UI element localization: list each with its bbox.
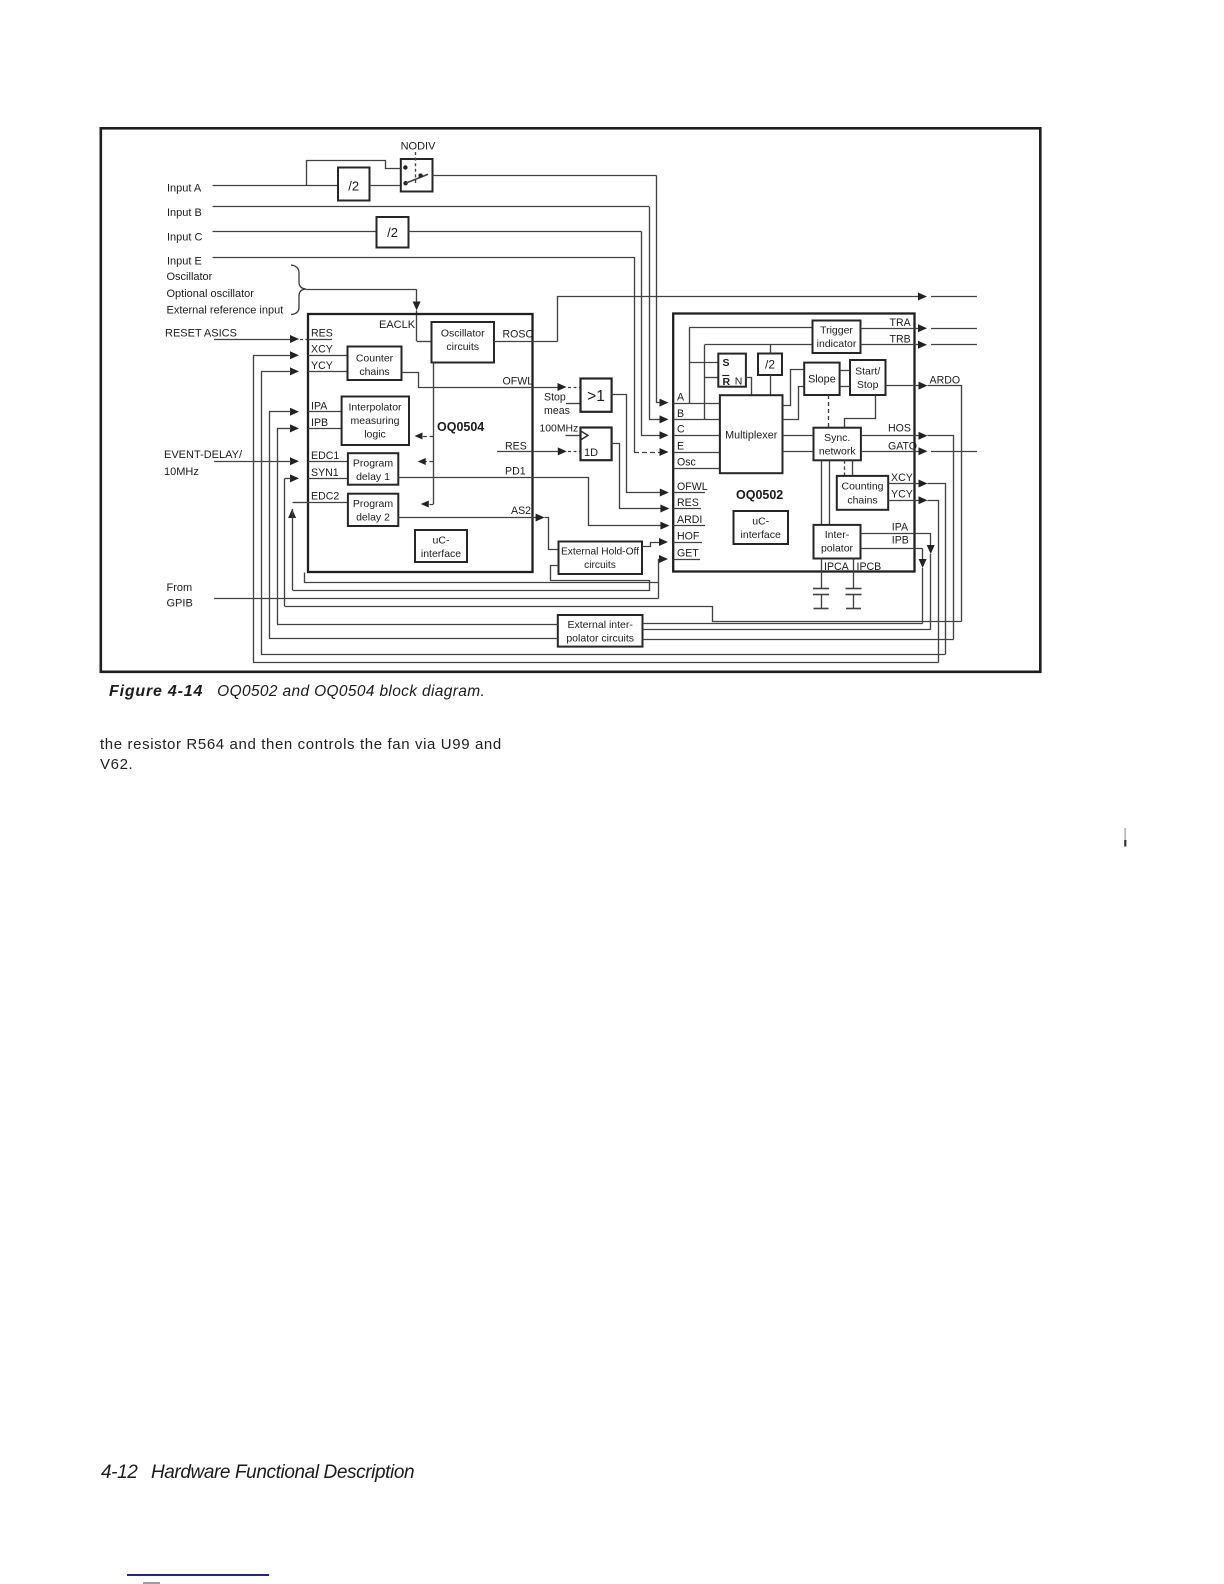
svg-text:measuring: measuring	[350, 415, 399, 427]
svg-text:C: C	[677, 424, 685, 436]
svg-text:chains: chains	[847, 495, 877, 507]
svg-text:GATO: GATO	[888, 441, 917, 453]
svg-text:ARDO: ARDO	[930, 375, 961, 387]
svg-text:delay 2: delay 2	[356, 512, 390, 524]
svg-text:Stop: Stop	[857, 379, 879, 391]
svg-text:1D: 1D	[584, 447, 598, 459]
svg-text:XCY: XCY	[891, 472, 913, 484]
svg-text:uC-: uC-	[433, 535, 450, 547]
svg-text:logic: logic	[364, 429, 386, 441]
svg-text:GPIB: GPIB	[167, 598, 193, 610]
svg-text:ARDI: ARDI	[677, 514, 702, 526]
svg-text:OFWL: OFWL	[677, 481, 708, 493]
svg-text:/2: /2	[765, 358, 775, 372]
svg-text:HOF: HOF	[677, 531, 700, 543]
svg-text:IPCB: IPCB	[857, 561, 882, 573]
svg-text:TRA: TRA	[890, 317, 912, 329]
svg-text:ROSC: ROSC	[503, 329, 534, 341]
svg-text:Input E: Input E	[167, 256, 202, 268]
svg-text:Inter-: Inter-	[825, 529, 850, 541]
svg-text:IPA: IPA	[311, 400, 328, 412]
svg-text:R: R	[723, 376, 731, 388]
svg-text:IPCA: IPCA	[824, 561, 850, 573]
svg-text:uC-: uC-	[752, 516, 769, 528]
svg-text:chains: chains	[359, 366, 389, 378]
svg-text:/2: /2	[348, 179, 359, 194]
svg-text:Optional oscillator: Optional oscillator	[167, 288, 255, 300]
svg-text:External reference input: External reference input	[167, 305, 284, 317]
svg-text:10MHz: 10MHz	[164, 466, 199, 478]
svg-text:OFWL: OFWL	[503, 376, 534, 388]
svg-text:OQ0502: OQ0502	[736, 488, 783, 502]
svg-text:polator: polator	[821, 543, 854, 555]
svg-text:OQ0504: OQ0504	[437, 420, 484, 434]
svg-text:RES: RES	[677, 497, 699, 509]
svg-text:Sync.: Sync.	[824, 432, 850, 444]
svg-text:IPB: IPB	[311, 417, 328, 429]
svg-text:GET: GET	[677, 548, 699, 560]
svg-text:Slope: Slope	[808, 374, 836, 386]
svg-text:Program: Program	[353, 458, 394, 470]
svg-text:delay 1: delay 1	[356, 471, 390, 483]
svg-text:interface: interface	[741, 529, 781, 541]
svg-text:External inter-: External inter-	[568, 619, 634, 631]
svg-text:XCY: XCY	[311, 344, 333, 356]
svg-text:polator circuits: polator circuits	[566, 633, 634, 645]
svg-text:meas: meas	[544, 405, 570, 417]
svg-text:EDC1: EDC1	[311, 450, 339, 462]
svg-text:Osc: Osc	[677, 457, 697, 469]
svg-text:RESET ASICS: RESET ASICS	[165, 328, 237, 340]
svg-text:N: N	[735, 376, 743, 388]
svg-text:100MHz: 100MHz	[540, 424, 579, 435]
svg-text:RES: RES	[505, 441, 527, 453]
svg-text:Start/: Start/	[855, 366, 880, 378]
svg-text:/2: /2	[387, 225, 398, 240]
svg-text:Input B: Input B	[167, 207, 202, 219]
svg-text:RES: RES	[311, 328, 333, 340]
svg-text:Trigger: Trigger	[820, 325, 853, 337]
svg-text:YCY: YCY	[891, 489, 913, 501]
svg-text:interface: interface	[421, 548, 461, 560]
svg-text:S: S	[723, 357, 730, 369]
svg-text:Counter: Counter	[356, 353, 394, 365]
svg-text:Stop: Stop	[544, 392, 566, 404]
svg-text:Oscillator: Oscillator	[441, 328, 485, 340]
svg-text:Program: Program	[353, 498, 394, 510]
svg-text:A: A	[677, 392, 685, 404]
svg-text:IPB: IPB	[892, 535, 909, 547]
svg-text:Interpolator: Interpolator	[348, 402, 402, 414]
svg-text:Oscillator: Oscillator	[167, 271, 213, 283]
svg-text:AS2: AS2	[511, 505, 531, 517]
svg-text:Input A: Input A	[167, 183, 202, 195]
svg-text:Input C: Input C	[167, 232, 203, 244]
svg-text:E: E	[677, 441, 684, 453]
svg-text:Multiplexer: Multiplexer	[725, 430, 778, 442]
svg-text:TRB: TRB	[890, 334, 911, 346]
svg-text:EVENT-DELAY/: EVENT-DELAY/	[164, 449, 243, 461]
svg-text:Counting: Counting	[841, 481, 883, 493]
svg-text:circuits: circuits	[584, 560, 616, 571]
svg-text:indicator: indicator	[817, 338, 857, 350]
svg-text:NODIV: NODIV	[401, 141, 437, 153]
svg-text:HOS: HOS	[888, 423, 911, 435]
svg-text:SYN1: SYN1	[311, 467, 339, 479]
svg-text:B: B	[677, 408, 684, 420]
svg-text:>1: >1	[587, 388, 605, 405]
svg-text:PD1: PD1	[505, 466, 526, 478]
svg-text:External Hold-Off: External Hold-Off	[561, 547, 639, 558]
svg-text:circuits: circuits	[446, 341, 479, 353]
svg-text:YCY: YCY	[311, 360, 333, 372]
svg-text:network: network	[819, 446, 857, 458]
svg-text:EDC2: EDC2	[311, 491, 339, 503]
svg-text:EACLK: EACLK	[379, 319, 416, 331]
svg-text:From: From	[167, 582, 193, 594]
svg-text:IPA: IPA	[892, 522, 909, 534]
